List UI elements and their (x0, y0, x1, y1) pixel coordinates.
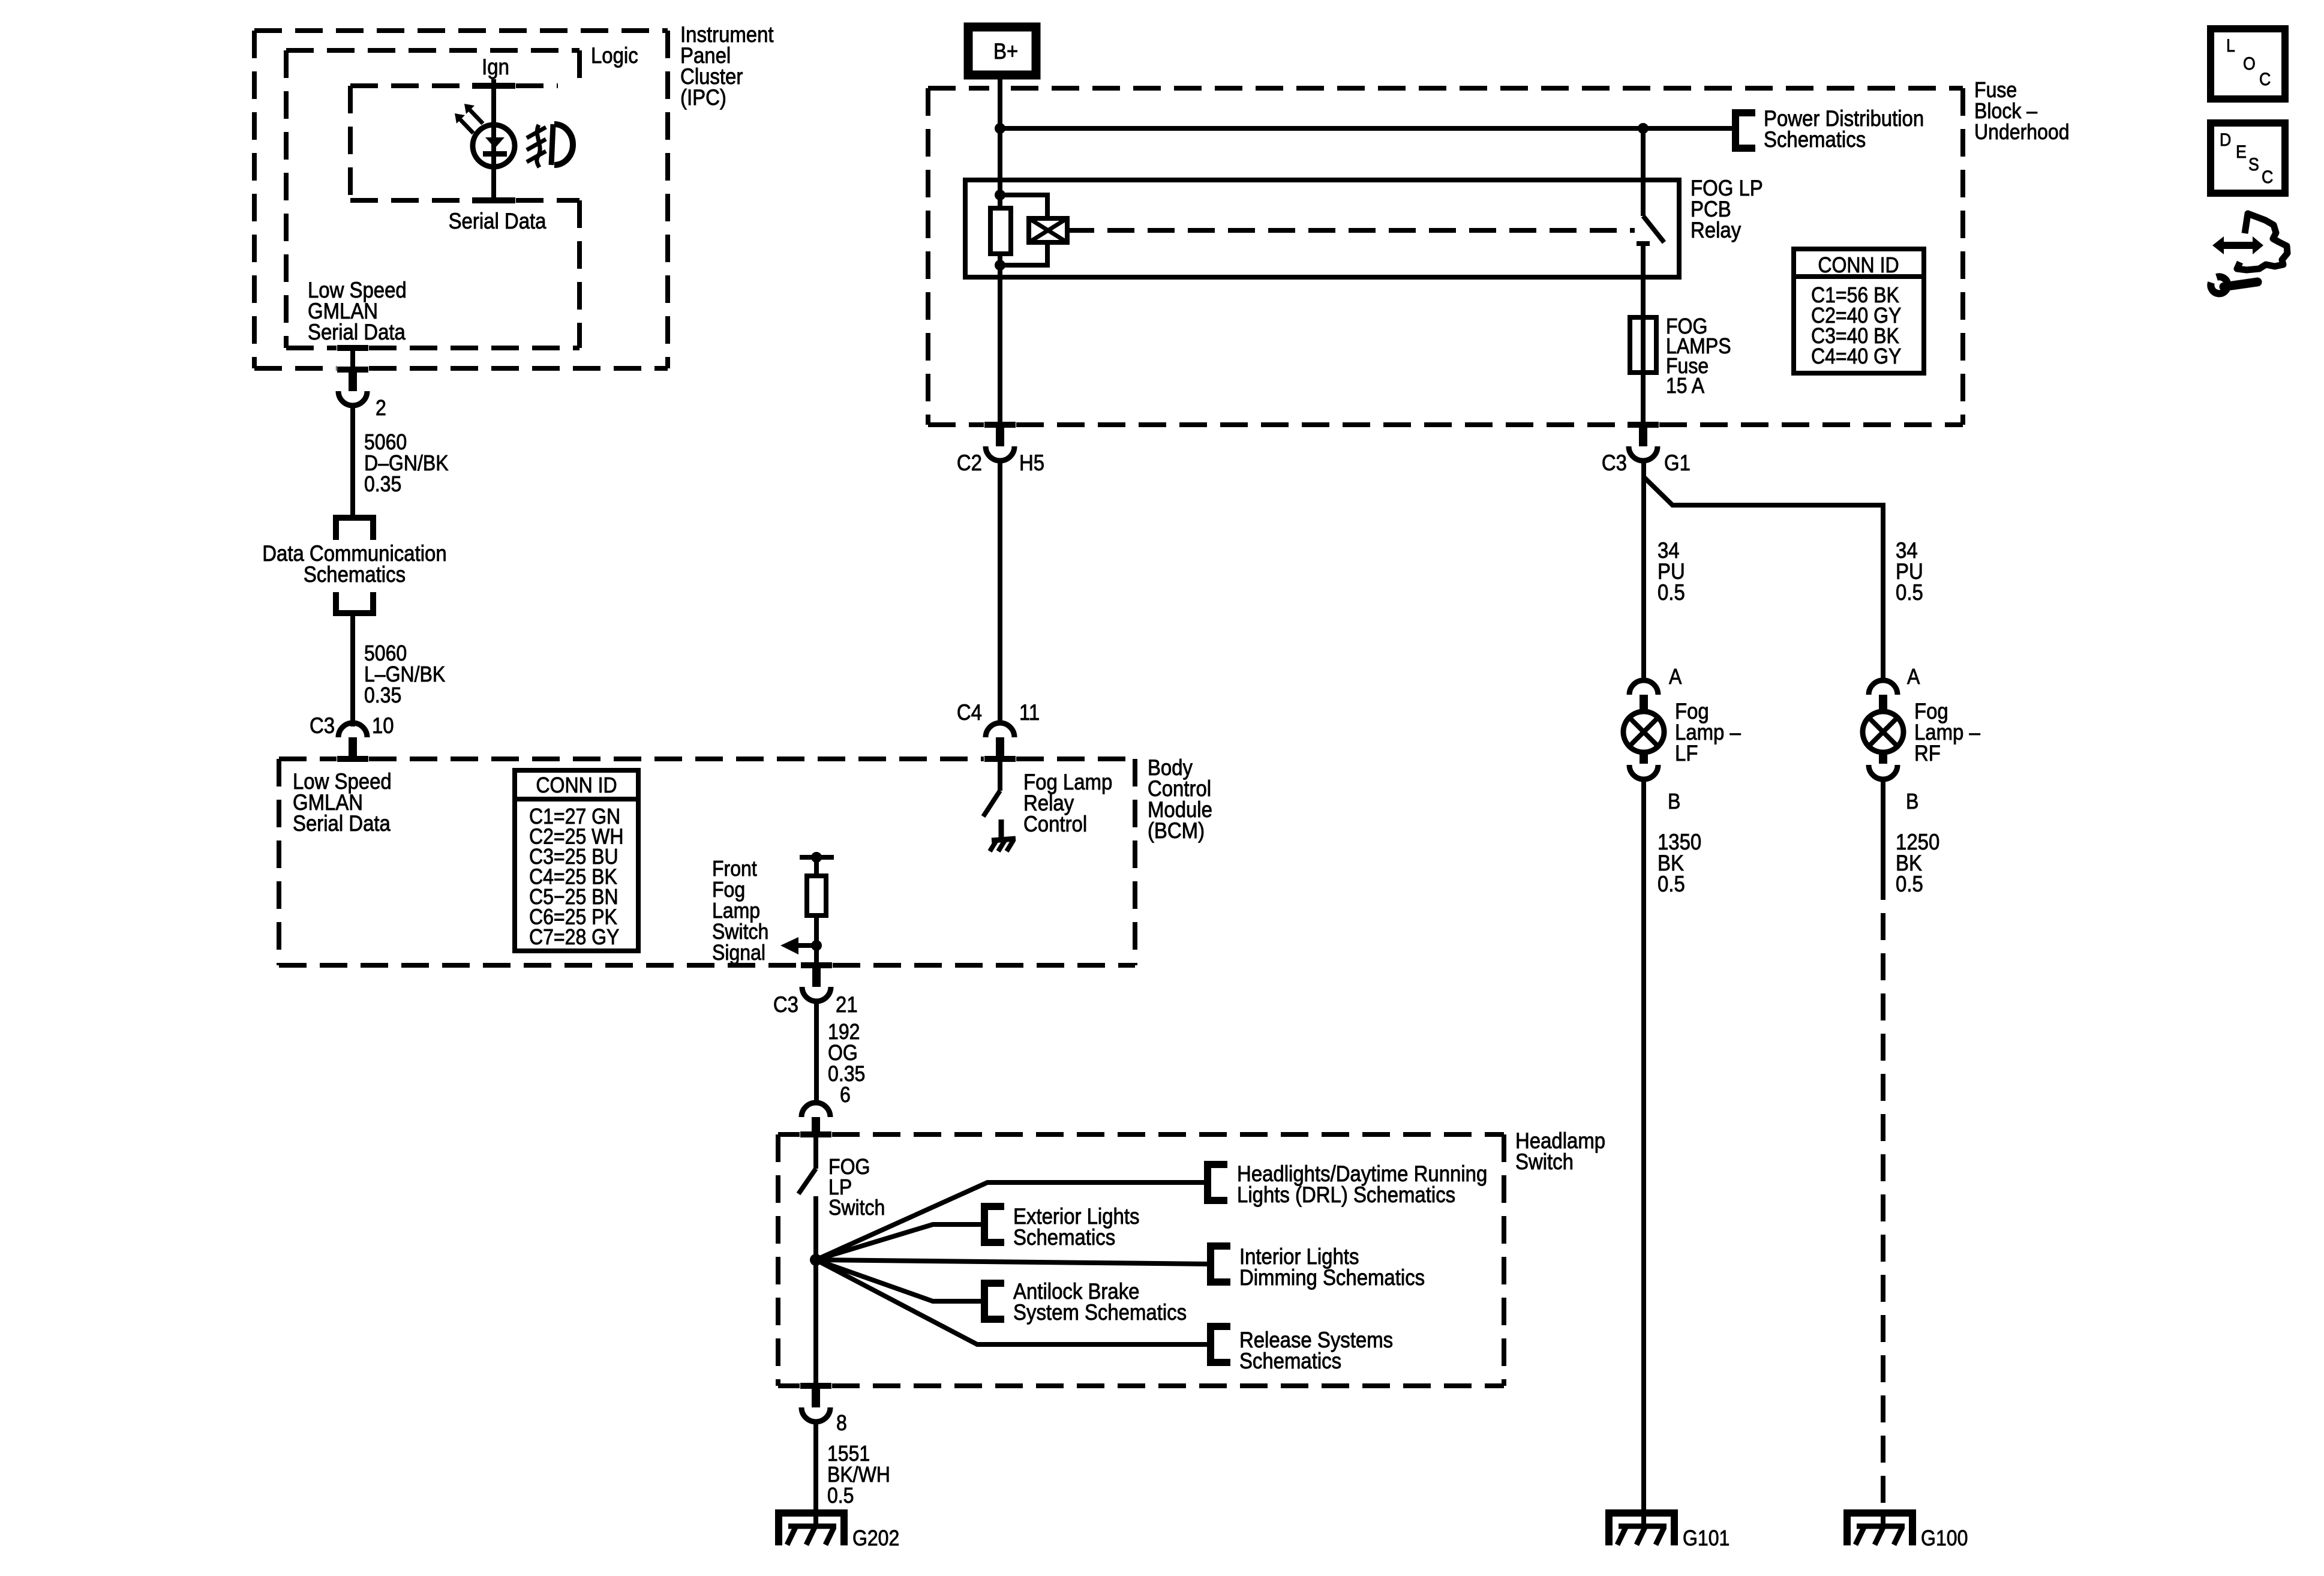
svg-text:D: D (2220, 130, 2231, 151)
svg-text:C3: C3 (773, 992, 798, 1017)
svg-text:LF: LF (1675, 741, 1698, 766)
svg-text:C4=40 GY: C4=40 GY (1811, 344, 1901, 368)
svg-text:C4: C4 (957, 700, 982, 725)
svg-text:Logic: Logic (591, 43, 638, 68)
svg-text:E: E (2236, 142, 2247, 163)
svg-text:Schematics: Schematics (1013, 1225, 1115, 1250)
svg-text:Dimming Schematics: Dimming Schematics (1239, 1265, 1425, 1290)
svg-text:21: 21 (836, 992, 858, 1017)
svg-text:Control: Control (1023, 812, 1087, 836)
svg-text:Schematics: Schematics (304, 562, 406, 587)
svg-text:B+: B+ (993, 39, 1018, 64)
svg-text:G101: G101 (1683, 1526, 1730, 1550)
svg-text:2: 2 (376, 396, 386, 420)
svg-text:Lights (DRL) Schematics: Lights (DRL) Schematics (1237, 1182, 1455, 1207)
svg-text:Relay: Relay (1691, 218, 1742, 242)
svg-text:Schematics: Schematics (1764, 127, 1866, 152)
svg-text:A: A (1907, 665, 1920, 689)
svg-text:11: 11 (1019, 700, 1040, 725)
svg-text:0.5: 0.5 (1658, 580, 1685, 605)
svg-text:0.5: 0.5 (1658, 872, 1685, 896)
svg-text:C3: C3 (1602, 451, 1627, 475)
svg-text:(IPC): (IPC) (680, 85, 726, 110)
svg-text:CONN ID: CONN ID (1818, 253, 1899, 277)
svg-text:8: 8 (836, 1411, 847, 1435)
svg-text:CONN ID: CONN ID (536, 773, 617, 797)
svg-text:A: A (1669, 665, 1682, 689)
svg-text:Schematics: Schematics (1239, 1349, 1341, 1373)
svg-text:C3: C3 (310, 713, 335, 738)
svg-text:B: B (1668, 789, 1680, 813)
svg-text:C: C (2262, 167, 2273, 188)
svg-text:G1: G1 (1664, 451, 1691, 475)
svg-text:O: O (2243, 54, 2256, 74)
svg-text:Underhood: Underhood (1974, 120, 2069, 144)
svg-text:L: L (2226, 36, 2235, 56)
svg-text:C2: C2 (957, 451, 982, 475)
svg-text:System Schematics: System Schematics (1013, 1300, 1187, 1325)
svg-text:Switch: Switch (828, 1196, 885, 1220)
svg-text:C7=28 GY: C7=28 GY (529, 925, 619, 949)
svg-text:Ign: Ign (482, 55, 509, 79)
svg-text:15 A: 15 A (1666, 374, 1704, 398)
svg-text:H5: H5 (1019, 451, 1044, 475)
svg-text:Serial Data: Serial Data (308, 320, 406, 344)
svg-text:0.5: 0.5 (1896, 872, 1923, 896)
svg-text:RF: RF (1914, 741, 1941, 766)
svg-text:G202: G202 (852, 1526, 899, 1550)
svg-text:Serial Data: Serial Data (293, 811, 391, 836)
svg-text:0.35: 0.35 (364, 683, 401, 707)
svg-text:Signal: Signal (712, 941, 765, 965)
svg-text:10: 10 (372, 713, 394, 738)
svg-text:0.5: 0.5 (1896, 580, 1923, 605)
svg-text:G100: G100 (1921, 1526, 1968, 1550)
svg-text:Switch: Switch (1515, 1149, 1574, 1174)
svg-text:6: 6 (840, 1083, 851, 1107)
svg-text:0.5: 0.5 (827, 1484, 854, 1508)
svg-text:0.35: 0.35 (364, 472, 401, 496)
svg-text:(BCM): (BCM) (1148, 818, 1205, 843)
svg-text:B: B (1906, 789, 1918, 813)
svg-text:C: C (2259, 70, 2271, 90)
svg-text:Serial Data: Serial Data (449, 209, 547, 233)
svg-text:S: S (2248, 155, 2259, 175)
